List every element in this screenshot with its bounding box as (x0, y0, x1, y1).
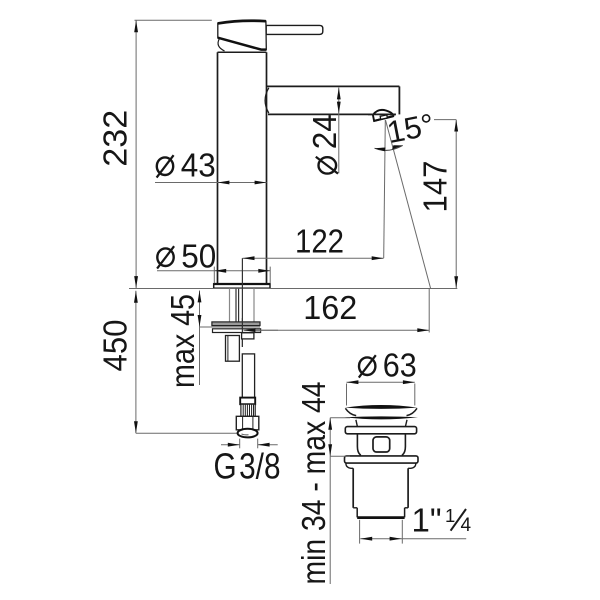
svg-text:1: 1 (445, 505, 455, 526)
centerline of faucet (241, 258, 243, 347)
angle line 15 deg (386, 120, 431, 288)
spout left end cap arc (265, 88, 269, 113)
lever handle (266, 25, 323, 34)
base plate (214, 284, 270, 288)
faucet body (218, 52, 267, 283)
svg-text:122: 122 (295, 223, 344, 260)
washer 2 (213, 318, 279, 347)
svg-text:63: 63 (383, 347, 417, 384)
dimension 1 1/4 (360, 520, 467, 544)
lower flange (345, 456, 419, 463)
dimension o43 (155, 146, 267, 184)
text 1" 1/4 (412, 501, 472, 538)
drain cap sides (345, 408, 417, 415)
svg-text:1": 1" (412, 501, 442, 538)
svg-text:162: 162 (303, 289, 357, 326)
hose braid collar flange (240, 398, 255, 405)
max45 bottom extension (200, 326, 261, 328)
shoulder under lower flange (346, 463, 416, 468)
svg-text:4: 4 (461, 515, 472, 536)
svg-text:147: 147 (417, 161, 454, 213)
neck under cap (356, 420, 407, 427)
dimension 232 (97, 20, 139, 288)
aerator (368, 110, 396, 121)
washer 1 (gray) (212, 322, 260, 326)
dimension min34-max44 (295, 382, 350, 585)
450 bottom extension to hose end (136, 432, 238, 434)
overflow window (373, 437, 390, 452)
dimension o63 (347, 347, 417, 406)
head/body junction arc (218, 39, 224, 51)
svg-text:24: 24 (306, 114, 343, 149)
svg-text:50: 50 (181, 237, 216, 274)
dimension G3/8 (221, 439, 278, 449)
svg-text:min 34 - max 44: min 34 - max 44 (295, 382, 332, 585)
dimension 162 (244, 289, 430, 332)
braid ribbed section (241, 404, 255, 416)
upper body with waist (357, 434, 405, 456)
dimension o24 (306, 88, 343, 174)
tail body (353, 468, 408, 508)
drain cap top (345, 405, 418, 409)
flexible hose tube (242, 354, 254, 398)
dimension o50 (157, 237, 270, 283)
threaded rods / hoses below counter (230, 289, 255, 322)
svg-text:450: 450 (97, 320, 134, 372)
mounting nut on rod (226, 336, 240, 362)
dimension 122 (243, 223, 384, 261)
top extension line (135, 19, 212, 21)
spout (267, 86, 400, 114)
hose end hex nut G3/8 (236, 416, 258, 437)
dimension 147 (417, 120, 459, 289)
angle reference line (vertical from aerator) (384, 120, 386, 258)
drain cap bottom rim (344, 416, 418, 419)
faucet head (cartridge cap) (218, 21, 266, 50)
svg-text:max 45: max 45 (164, 294, 201, 388)
tail tip (357, 508, 404, 518)
dimension 450 (97, 291, 138, 433)
svg-text:43: 43 (181, 146, 216, 183)
dimension max45 (164, 291, 201, 389)
connector line from 15deg to 147 (434, 119, 456, 121)
top flange (345, 427, 416, 434)
angle arc with arrows (375, 145, 403, 151)
hose fitting below washers (242, 333, 254, 339)
svg-text:232: 232 (97, 110, 134, 167)
162 right extension line (428, 289, 430, 333)
svg-text:G 3/8: G 3/8 (214, 446, 281, 487)
counter surface line (129, 288, 457, 290)
body top line (218, 51, 267, 53)
